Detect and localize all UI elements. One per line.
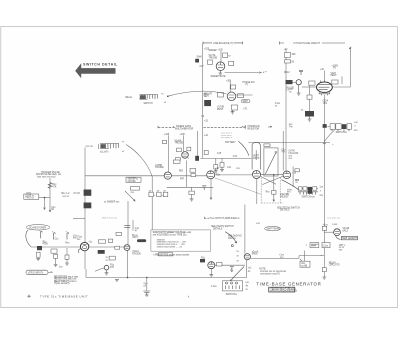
- svg-text:6AU8: 6AU8: [252, 253, 258, 256]
- svg-text:SWITCHxx: SWITCHxx: [336, 132, 348, 134]
- capacitor C178: [238, 94, 244, 98]
- svg-text:.001: .001: [323, 103, 328, 105]
- wire stub x=86 to bus: [85, 269, 87, 278]
- connector dark box V214: [286, 80, 293, 84]
- svg-text:MULTI xxxx xxx: MULTI xxxx xxx: [102, 217, 118, 219]
- pot arrow diagonal: [125, 191, 135, 201]
- wire curve from pill side into V126: [95, 268, 104, 271]
- wire y=255.2 into main vertical: [299, 251, 324, 262]
- tube V152A: [207, 171, 215, 179]
- svg-text:RESIST: RESIST: [280, 197, 289, 199]
- svg-text:DCxRESTORER: DCxRESTORER: [29, 227, 47, 229]
- resistor R151: [204, 151, 208, 155]
- resistor R173: [223, 53, 228, 58]
- tube V232: [334, 229, 341, 236]
- box label SWEEP STAB: [126, 177, 141, 183]
- dark connector box: [200, 259, 205, 262]
- SWITCH DETAIL arrow: [75, 63, 118, 79]
- wire V161 right branch: [292, 167, 294, 187]
- svg-text:INTERCON.: INTERCON.: [248, 126, 261, 128]
- svg-text:C15: C15: [217, 153, 222, 155]
- wire V220 grid left: [302, 86, 316, 88]
- wire multivib plate right x=183.7: [183, 135, 185, 151]
- sweep length pot area: vertical x=128: [127, 201, 129, 245]
- oval label DC RESTORER: [26, 225, 50, 230]
- wire V152B cathode down: [273, 176, 275, 202]
- svg-text:PENT: PENT: [331, 75, 338, 77]
- svg-text:SWITCHxx: SWITCHxx: [226, 294, 238, 296]
- capacitor C146: [187, 147, 191, 151]
- pencil note block faint: [221, 133, 236, 144]
- tube V161: [283, 171, 291, 179]
- svg-text:xx SWEEP xxx: xx SWEEP xxx: [104, 201, 120, 203]
- wire plate V173B: [229, 82, 231, 93]
- dark connector box left: [98, 250, 105, 254]
- resistor boxes left: [99, 240, 106, 243]
- resistor R134: [115, 246, 120, 249]
- ground below V173B: [231, 110, 235, 114]
- ground below R226: [308, 117, 312, 122]
- wire V150 cathode to bus: [246, 260, 248, 278]
- info box dark: [269, 287, 298, 292]
- wire y=142 into corner: [249, 143, 331, 145]
- annotation arrow hold sync: [225, 232, 237, 243]
- wire V140 down w ground: [210, 269, 212, 275]
- connector circle: [231, 245, 233, 247]
- svg-text:+350: +350: [226, 80, 232, 82]
- svg-text:xxxxxxxxxx xxxx(?): xxxxxxxxxx xxxx(?): [260, 274, 280, 276]
- svg-text:CIRCUITS: CIRCUITS: [329, 265, 340, 267]
- wire coupling diagonal C: [261, 176, 276, 184]
- svg-text:DETAILS: DETAILS: [213, 228, 223, 231]
- wire trigger row y=247: [31, 246, 124, 248]
- trigger input note block: [36, 172, 62, 179]
- resistor R148: [173, 160, 180, 163]
- svg-text:SAW: SAW: [197, 56, 203, 59]
- switch detail box: [223, 281, 243, 291]
- svg-text:+105: +105: [164, 134, 170, 136]
- capacitor box C119: [51, 249, 57, 253]
- inductor dark box L120: [84, 190, 92, 196]
- resistor stub R154: [215, 158, 217, 164]
- svg-text:TRIODE: TRIODE: [209, 58, 218, 60]
- svg-text:xTRIG INPUTx: xTRIG INPUTx: [28, 273, 44, 275]
- svg-text:RExxx: RExxx: [126, 97, 133, 99]
- svg-text:+1xx: +1xx: [323, 224, 329, 226]
- svg-text:SWEEP GATE: SWEEP GATE: [176, 125, 191, 128]
- tube V145B: [164, 172, 171, 179]
- resistor box R121: [65, 255, 69, 259]
- wire pump branch x=309.5: [309, 85, 311, 111]
- annotation curve into switch box: [230, 267, 244, 282]
- svg-text:HOLD PULSE CIRCUIT: HOLD PULSE CIRCUIT: [296, 43, 321, 45]
- resistor R221: [309, 81, 315, 85]
- connector dark blob on row: [37, 246, 42, 250]
- section header OUTPUT AMPLIFIER: [204, 217, 240, 220]
- wire hold-pulse left bus x=287.3: [285, 50, 287, 171]
- svg-text:R212: R212: [284, 72, 290, 74]
- resistor R100 zigzag: [48, 183, 52, 189]
- ground below V214A: [297, 85, 301, 95]
- wire V152B to V161: [261, 174, 284, 176]
- wire V145B to V152A: [171, 175, 206, 177]
- svg-text:6AL5: 6AL5: [343, 229, 349, 232]
- resistor trio below V145B: [149, 192, 168, 197]
- wire cathode bus y=187.3: [167, 186, 214, 188]
- connector pill TRIGGER INPUT: [26, 270, 48, 275]
- timing switch SW11 ladder: [100, 144, 119, 149]
- svg-text:xxPORTLANDxOREGONx: xxPORTLANDxOREGONx: [270, 290, 298, 293]
- section header LINE BALANCE: [203, 42, 243, 45]
- wire V173B plate right: [236, 94, 253, 96]
- resistor stub below cathode bus: [191, 187, 193, 191]
- svg-text:TYPE 31x TIME/BASE UNIT: TYPE 31x TIME/BASE UNIT: [40, 294, 88, 298]
- resistor box 7ohm dashed inside: [306, 243, 319, 248]
- grid stub resistors with hooks: [41, 231, 69, 239]
- capacitor C158: [202, 186, 206, 191]
- oval label SWEEP TRANSITION: [265, 226, 281, 230]
- svg-text:xxx xx: xxx xx: [63, 196, 70, 198]
- svg-text:MULTIVIBRATOR: MULTIVIBRATOR: [175, 128, 194, 131]
- wire vertical into V150: [244, 205, 246, 254]
- crystal can shield: [252, 142, 260, 169]
- svg-text:TRIG xx: TRIG xx: [25, 198, 34, 200]
- CRT window box with sweep trace: [264, 144, 278, 176]
- svg-text:SWITCH xxx: SWITCH xxx: [302, 196, 316, 198]
- resistor R176: [231, 85, 236, 89]
- svg-text:SWP TRANS: SWP TRANS: [267, 228, 281, 231]
- capacitor C175: [229, 61, 234, 65]
- resistor R140: [163, 140, 167, 143]
- svg-text:SWEEP GATE: SWEEP GATE: [211, 75, 226, 78]
- NOTE annotation: [259, 269, 287, 276]
- svg-text:C2xx: C2xx: [323, 245, 329, 247]
- wire multivib plate left x=168.5: [168, 135, 170, 172]
- resistor R222: [332, 80, 338, 84]
- svg-text:TIME-BASE GENERATOR: TIME-BASE GENERATOR: [256, 282, 321, 287]
- wire sawtooth output y=158.4: [200, 157, 251, 159]
- svg-text:C3 33: C3 33: [74, 193, 81, 195]
- ground at bottom of main vertical: [322, 277, 326, 279]
- annotation curve to figure: [281, 180, 299, 191]
- svg-text:470K: 470K: [43, 244, 49, 246]
- tube V150: [244, 254, 250, 260]
- svg-text:OFF xx: OFF xx: [228, 238, 236, 240]
- wire V152A to V152B: [215, 174, 253, 176]
- svg-text:+105: +105: [180, 134, 186, 136]
- svg-text:xxxx xxxx xxx: xxxx xxxx xxx: [327, 218, 341, 220]
- wire pill to node: [48, 271, 53, 274]
- tube V214A: [296, 80, 301, 85]
- wire V150 output to right: [250, 256, 302, 261]
- svg-text:PENT.: PENT.: [217, 109, 224, 111]
- svg-text:R82: R82: [179, 171, 184, 173]
- junction dots on bus: [127, 277, 129, 279]
- svg-text:DETAILS: DETAILS: [280, 209, 290, 212]
- wire left vertical bus x=85: [84, 148, 86, 270]
- svg-text:R47: R47: [180, 179, 185, 181]
- input terminal box: [24, 193, 39, 200]
- tube V173A: [216, 62, 225, 71]
- svg-text:xx.AB: xx.AB: [301, 264, 307, 267]
- resistor R145: [177, 148, 182, 152]
- notes text block lower left: [54, 276, 79, 285]
- resistor R165: [295, 169, 300, 172]
- svg-text:(?): (?): [245, 84, 248, 86]
- terminal box right: [300, 261, 310, 267]
- horizontal selector switch row: [298, 187, 318, 195]
- resistor R163: [272, 190, 277, 194]
- svg-text:x RESISTORS xxx xx xxxxx xxxxx: x RESISTORS xxx xx xxxxx xxxxxx: [153, 254, 190, 256]
- svg-text:xSTABx: xSTABx: [128, 180, 137, 183]
- tube V125: [124, 245, 130, 251]
- tube V115 with internal cross: [78, 242, 88, 253]
- annotation arrow battery to can: [238, 141, 249, 156]
- svg-text:(OK?): (OK?): [132, 237, 138, 239]
- svg-text:TRIODE: TRIODE: [132, 254, 141, 256]
- resistor R141: [217, 263, 223, 267]
- svg-text:TRIODE: TRIODE: [175, 143, 184, 145]
- potentiometer dark box R226: [305, 111, 314, 117]
- ground below V126: [105, 270, 109, 275]
- wire long arc from timing switch to multivib: [126, 145, 152, 177]
- svg-text:47K: 47K: [52, 186, 57, 188]
- wire V152A cathode down: [210, 179, 212, 200]
- wire vertical x=152.2 into low region: [151, 177, 153, 230]
- resistor box R120: [54, 254, 58, 258]
- registration cross bottom left: [27, 295, 30, 298]
- wire x=186.7: [186, 161, 188, 188]
- resistor stub below blob: [37, 252, 41, 257]
- resistor R132: [116, 232, 122, 235]
- wire curve from V232: [336, 235, 341, 239]
- box RESET: [131, 187, 140, 191]
- net label oval SWEEP: [241, 100, 250, 104]
- ground below stub: [190, 199, 194, 201]
- tube V126 small: [104, 265, 109, 270]
- svg-text:xxx xxxxx x: xxx xxxxx x: [221, 137, 233, 139]
- capacitor C170 left edge: [195, 59, 199, 63]
- svg-text:xxxxxx xxxx xxxxx ......xx: xxxxxx xxxx xxxxx ......xx: [157, 247, 183, 249]
- wire plate V173A: [220, 51, 222, 62]
- svg-text:CRYS: CRYS: [253, 158, 260, 160]
- capacitor dark box left edge: [195, 156, 199, 161]
- wire coupling stub x=44.5: [44, 198, 46, 210]
- resistor R150: [191, 174, 196, 177]
- wire vertical main left bus x=202.5: [202, 44, 204, 159]
- resistor stub R155: [221, 158, 223, 162]
- tube V220 pentode: [317, 80, 333, 95]
- wire grid feed curve from timing switch: [168, 91, 227, 96]
- wire from oval to grid: [26, 230, 31, 247]
- svg-text:(?)xxx xxxxx(?): (?)xxx xxxxx(?): [54, 283, 70, 285]
- section header HOLD PULSE CIRCUIT: [280, 42, 346, 45]
- wire to V214A grid: [293, 81, 297, 83]
- svg-text:SWP: SWP: [243, 101, 249, 103]
- tube V145A: [182, 152, 189, 159]
- wire tube V152B cathode drop: [256, 179, 258, 204]
- wire coupling diagonal D: [262, 176, 283, 184]
- parts value table: [151, 230, 211, 251]
- resistor R230: [322, 226, 326, 230]
- resistor R236 on vertical: [322, 268, 326, 272]
- timing switch SW10 contact ladder top: [139, 95, 157, 100]
- svg-text:xLLxxTx: xLLxxTx: [100, 152, 109, 154]
- svg-text:(?): (?): [333, 68, 336, 70]
- node dot top right: [349, 48, 351, 50]
- tube V140: [208, 262, 215, 269]
- svg-text:SWITCH DETAIL: SWITCH DETAIL: [83, 63, 118, 67]
- wire branch x=133: [132, 220, 134, 231]
- resistor R177: [218, 93, 224, 98]
- wire vertical x=283.2: [282, 131, 284, 171]
- tube V173B: [227, 92, 236, 101]
- svg-text:xxx VOLTAGES xx xxx TYPE 31x: xxx VOLTAGES xx xxx TYPE 31x: [153, 233, 188, 236]
- wire row bus into V145B: [85, 175, 164, 177]
- capacitor C213: [299, 70, 303, 75]
- svg-text:1 Axx: 1 Axx: [211, 285, 217, 288]
- dark label box SWEEP LENGTH: [341, 236, 357, 240]
- wire tube down to bus: [127, 251, 129, 278]
- wire into V232: [324, 231, 333, 233]
- svg-text:(?): (?): [287, 90, 290, 92]
- section header INTERCONNECT: [246, 125, 272, 130]
- svg-text:RESISTOR: RESISTOR: [248, 129, 260, 131]
- resistor R211: [285, 60, 291, 63]
- svg-text:xxx xxI: xxx xxI: [86, 146, 93, 148]
- dashed detail box: [261, 178, 283, 204]
- ground tick below bus: [115, 279, 119, 281]
- svg-text:TRIODE: TRIODE: [155, 167, 164, 169]
- wire aux vertical x=197.6: [197, 131, 199, 156]
- wire screen x=342: [341, 76, 343, 84]
- wire V220 plate right: [332, 47, 351, 87]
- wire trigger vertical x=50: [49, 178, 51, 212]
- wire curve chain to vertical: [324, 130, 334, 141]
- svg-text:(xxx xxxx xxx xxx): (xxx xxxx xxx xxx): [37, 177, 56, 179]
- wire plate feed V220: [323, 71, 325, 81]
- svg-text:BATTERY: BATTERY: [225, 141, 236, 144]
- wire stub y=218.3: [74, 217, 85, 219]
- capacitor C179 box: [231, 105, 237, 110]
- bypass cap stub below bus: [146, 278, 148, 291]
- wire V140 right y=265.2: [215, 264, 245, 266]
- table footnote with boxed word: [153, 253, 190, 257]
- capacitor box C234: [322, 243, 330, 248]
- wire long shallow coupling diagonal: [215, 178, 262, 194]
- svg-text:xxx OUTPUT AMPLIFIER xx: xxx OUTPUT AMPLIFIER xx: [211, 217, 241, 220]
- ground below V173A: [218, 71, 222, 76]
- bypass capacitor: [230, 267, 234, 272]
- svg-text:C17: C17: [200, 66, 205, 68]
- node dot timing switch output: [167, 96, 169, 98]
- inductor dark box L121: [84, 203, 92, 209]
- resistor R171: [208, 60, 213, 64]
- wire stub x=98.5: [98, 144, 100, 149]
- connector dark box J101: [204, 100, 211, 106]
- svg-text:SWEEP: SWEEP: [209, 50, 218, 52]
- dark oval PRESET: [137, 239, 146, 242]
- capacitor ticks on x=128: [124, 226, 130, 228]
- wire cathode output: [225, 72, 262, 74]
- svg-text:33K: 33K: [292, 54, 297, 56]
- resistor R225: [307, 95, 312, 99]
- resistor R210: [285, 53, 291, 58]
- timing resistor chain right of main vertical: [323, 124, 352, 132]
- capacitor C147: [176, 158, 181, 161]
- junction dot between tubes: [273, 174, 275, 176]
- wire long vertical x=324.3: [323, 95, 325, 277]
- capacitor box C136: [109, 256, 115, 260]
- tube V152B: [253, 171, 261, 179]
- svg-text:27K: 27K: [110, 267, 115, 269]
- svg-text:C7A: C7A: [233, 155, 238, 158]
- capacitor C149: [190, 168, 196, 172]
- wire terminal to bus: [39, 197, 50, 199]
- wire stub and ground: [55, 258, 57, 264]
- svg-text:SWP LENGTH: SWP LENGTH: [342, 238, 357, 240]
- svg-text:LINE BALANCE (?): LINE BALANCE (?): [213, 42, 233, 45]
- svg-text:+105: +105: [218, 50, 224, 52]
- section header SWEEP GATE MULTIVIBRATOR: [158, 125, 244, 131]
- svg-text:SWITCH: SWITCH: [144, 103, 153, 105]
- junction dot: [44, 197, 46, 199]
- main ground bus y=277.5: [86, 277, 247, 279]
